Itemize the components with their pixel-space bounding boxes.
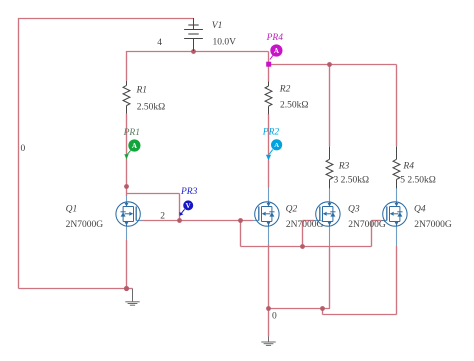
svg-text:2.50kΩ: 2.50kΩ (280, 100, 308, 110)
wire down to ground 2 (268, 309, 270, 337)
transistor Q3 (316, 202, 340, 227)
wire node 4 corner down to PR4 point (268, 52, 270, 65)
pin Q2 gate stub (253, 220, 259, 222)
wire net 0 bus bottom (269, 308, 331, 310)
svg-text:0: 0 (272, 311, 277, 321)
pin Q1 source stub (126, 226, 128, 240)
svg-text:Q3: Q3 (348, 204, 360, 214)
resistor R4 (393, 146, 400, 188)
probe PR3 arrow (179, 212, 183, 216)
pin Q1 drain stub (126, 196, 128, 203)
probe PR2 connector (269, 150, 272, 155)
svg-text:5 2.50kΩ: 5 2.50kΩ (400, 175, 436, 185)
svg-text:A: A (274, 47, 279, 55)
svg-text:Q2: Q2 (286, 204, 298, 214)
pin Q3 drain stub (329, 188, 331, 202)
pin Q4 drain stub (396, 188, 398, 202)
junction node 2 gate branch (238, 218, 243, 223)
svg-text:A: A (274, 142, 279, 149)
svg-text:R3: R3 (338, 161, 350, 171)
wire gate bus lower (241, 246, 303, 248)
wire bottom left net 0 (19, 288, 127, 290)
svg-text:2N7000G: 2N7000G (66, 220, 104, 230)
svg-text:PR1: PR1 (123, 128, 140, 138)
resistor R2 (265, 82, 272, 115)
svg-text:V1: V1 (212, 21, 223, 31)
transistor Q4 (383, 202, 407, 227)
wire gate bus lower right (303, 246, 372, 248)
wire gate branch down from node 2 (240, 221, 242, 247)
wire Q4 source down (396, 246, 398, 315)
wire Q3 source down (329, 246, 331, 309)
wire riser to Q3 gate (302, 221, 304, 247)
svg-text:R4: R4 (402, 161, 414, 171)
svg-text:0: 0 (21, 144, 26, 154)
wire R1 to Q1 drain (126, 114, 128, 197)
wire left vertical net 0 (18, 18, 20, 289)
svg-text:2N7000G: 2N7000G (348, 220, 386, 230)
probe PR4 square (266, 62, 271, 67)
svg-text:2: 2 (160, 212, 165, 222)
junction PR3 at node 2 (177, 218, 182, 223)
probe PR4 connector (270, 55, 273, 59)
probe PR2 circle (271, 139, 282, 150)
wire bus down to R1 (126, 51, 128, 81)
wire top bus to R3 R4 (269, 64, 397, 66)
wire to Q4 gate pin (372, 220, 381, 222)
transistor Q2 (255, 202, 279, 227)
svg-text:A: A (132, 142, 137, 150)
ground near Q1 (125, 289, 139, 306)
wire riser to Q4 gate (371, 221, 373, 247)
svg-text:10.0V: 10.0V (213, 37, 237, 47)
probe PR3 circle (183, 200, 193, 210)
wire net 0 jog down (322, 309, 324, 315)
svg-text:2.50kΩ: 2.50kΩ (137, 103, 165, 113)
probe PR4 circle (270, 44, 282, 56)
junction net 0 at Q2 source (266, 306, 271, 311)
probe PR1 arrow (124, 154, 128, 159)
svg-text:4: 4 (157, 38, 162, 48)
wire PR3 riser (179, 194, 181, 221)
pin Q2 drain stub (268, 188, 270, 203)
pin Q4 source stub (396, 226, 398, 246)
wire top from battery to left (19, 18, 194, 20)
svg-text:2N7000G: 2N7000G (414, 220, 452, 230)
transistor Q1 (116, 202, 140, 227)
wire node 4 bus (127, 51, 269, 53)
probe PR1 circle (128, 139, 140, 151)
probe PR3 connector (181, 209, 185, 213)
wire R2 to Q2 drain (268, 114, 270, 188)
svg-text:V: V (186, 202, 191, 210)
junction bottom left ground (124, 286, 129, 291)
svg-text:PR3: PR3 (180, 187, 198, 197)
svg-text:R1: R1 (136, 86, 148, 96)
wire Q1 drain branch to PR3 riser (127, 193, 180, 195)
svg-text:Q1: Q1 (66, 204, 78, 214)
wire Q2 source down (268, 245, 270, 309)
wire node 2 bus (141, 220, 253, 222)
junction Q1 drain (124, 184, 129, 189)
resistor R3 (326, 146, 333, 188)
junction net 0 jog (320, 306, 325, 311)
junction top bus at R3 (327, 62, 332, 67)
resistor R1 (123, 81, 130, 114)
junction lower gate bus (300, 244, 305, 249)
svg-text:PR2: PR2 (262, 128, 280, 138)
wire riser to R3 (329, 65, 331, 147)
pin Q3 source stub (329, 226, 331, 246)
svg-text:R2: R2 (279, 84, 291, 94)
wire Q1 source down (126, 240, 128, 289)
wire net 0 to Q4 source (323, 314, 397, 316)
svg-text:PR4: PR4 (266, 33, 284, 43)
battery V1 (184, 18, 203, 51)
wire to Q3 gate pin (303, 220, 314, 222)
wire ground stub near Q1 (127, 288, 133, 290)
probe PR2 arrow (266, 155, 271, 160)
pin Q3 gate stub (314, 220, 320, 222)
wire riser to R4 (396, 65, 398, 147)
ground bottom net 0 (261, 337, 275, 346)
pin Q4 gate stub (381, 220, 387, 222)
wire corner to R2 (268, 65, 270, 82)
junction battery bottom node 4 (191, 49, 196, 54)
svg-text:Q4: Q4 (414, 204, 426, 214)
svg-text:3 2.50kΩ: 3 2.50kΩ (334, 175, 370, 185)
probe PR1 connector (127, 150, 130, 154)
pin Q1 gate stub (136, 220, 142, 222)
pin Q2 source stub (268, 226, 270, 245)
